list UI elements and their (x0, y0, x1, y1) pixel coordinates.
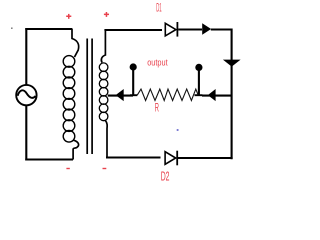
transformer T1 core (87, 39, 92, 155)
label: + polarity primary (66, 14, 71, 19)
diode D1 (165, 22, 177, 37)
wire: left resistor foot (130, 94, 137, 96)
transformer T1 secondary top lead (101, 29, 105, 63)
label: + polarity secondary (104, 12, 109, 17)
current arrow (right) on top wire (202, 23, 211, 35)
wire: left output vertical (132, 67, 134, 95)
current arrow (left) on center-tap wire (116, 89, 124, 101)
current arrow (left) on right return wire (208, 89, 216, 101)
node: left output junction (130, 63, 137, 70)
stray gray dot (11, 28, 13, 29)
wire: left rail upper (25, 28, 27, 85)
label: - polarity secondary (103, 168, 107, 169)
wire: right resistor foot (195, 94, 203, 96)
wire: top-left horizontal (25, 28, 72, 30)
resistor R zigzag (137, 89, 198, 100)
wire: arrow to top-right corner (211, 28, 232, 30)
wire: right rail (231, 29, 233, 160)
wire: resistor to right rail (202, 95, 232, 97)
svg-text:output: output (147, 58, 168, 68)
transformer T1 secondary bottom lead (105, 120, 107, 157)
wire: left rail lower (25, 105, 27, 160)
svg-text:D1: D1 (156, 1, 162, 15)
transformer T1 primary winding (63, 56, 75, 143)
AC source V1 (16, 85, 36, 105)
svg-text:R: R (155, 101, 159, 115)
wire: secondary bottom to D2 (106, 156, 161, 158)
wire: D1 cathode to arrow (178, 28, 202, 30)
current arrow (down) on right rail (223, 60, 241, 67)
node: right output junction (195, 64, 202, 71)
wire: center tap from secondary (108, 95, 133, 97)
transformer T1 primary bottom lead (73, 140, 78, 159)
label: - polarity primary (66, 168, 69, 169)
diode D2 (165, 151, 177, 166)
wire: D2 cathode to bottom-right corner (178, 157, 233, 159)
wire: right output vertical (198, 67, 200, 94)
stray blue dot (177, 129, 179, 131)
transformer T1 primary top lead (72, 29, 79, 58)
wire: bottom-left horizontal (25, 158, 73, 160)
svg-text:D2: D2 (161, 170, 170, 184)
transformer T1 secondary winding (99, 63, 108, 121)
wire: secondary top to D1 (104, 29, 162, 31)
